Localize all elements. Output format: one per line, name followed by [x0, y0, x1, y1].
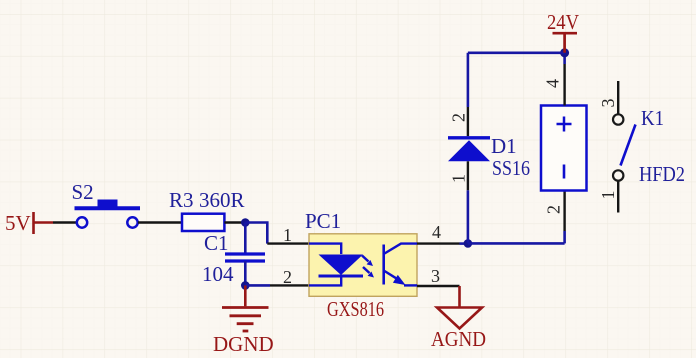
svg-text:PC1: PC1 [305, 209, 341, 233]
K1 label [641, 106, 664, 130]
junction [464, 239, 473, 248]
svg-text:AGND: AGND [431, 327, 486, 351]
wire [245, 223, 267, 244]
svg-text:1: 1 [598, 191, 618, 200]
wire (PC1 pin 1 lead) [267, 242, 309, 244]
svg-text:SS16: SS16 [492, 156, 530, 180]
PC1 pin 2 [283, 267, 292, 287]
K1 value HFD2 [639, 162, 685, 186]
power port 5V [5, 211, 53, 235]
junction [241, 218, 250, 227]
R3 value 360R [199, 188, 245, 212]
relay coil pin 4 number [543, 79, 563, 88]
svg-text:24V: 24V [547, 10, 579, 34]
relay contact K1 [613, 81, 636, 213]
svg-text:2: 2 [544, 205, 564, 214]
svg-text:GXS816: GXS816 [327, 297, 384, 321]
wire [467, 190, 470, 243]
ground AGND [431, 286, 486, 351]
svg-text:2: 2 [283, 267, 292, 287]
relay coil pin 2 number [544, 205, 564, 214]
svg-text:5V: 5V [5, 211, 31, 235]
D1 label [491, 134, 517, 158]
switch S2 [72, 180, 141, 228]
PC1 pin 3 [431, 266, 440, 286]
svg-text:360R: 360R [199, 188, 245, 212]
wire [467, 53, 470, 107]
wire [468, 51, 565, 54]
C1 value 104 [202, 262, 234, 286]
svg-text:4: 4 [543, 79, 563, 88]
relay coil K1 [541, 106, 587, 191]
wire [460, 242, 468, 245]
svg-text:1: 1 [449, 174, 469, 183]
svg-text:104: 104 [202, 262, 234, 286]
wire (D1 pin 1 lead) [467, 161, 469, 190]
wire [244, 261, 247, 285]
wire [468, 242, 565, 245]
svg-text:4: 4 [432, 222, 441, 242]
svg-text:C1: C1 [204, 231, 229, 255]
wire [245, 284, 270, 287]
wire (PC1 pin 4 lead) [417, 242, 460, 244]
wire (D1 pin 2 lead) [467, 107, 469, 136]
PC1 pin 1 [283, 225, 292, 245]
wire [244, 223, 247, 253]
D1 pin 2 number [449, 113, 469, 122]
svg-text:D1: D1 [491, 134, 517, 158]
wire [563, 231, 566, 243]
power port 24V [547, 10, 579, 53]
svg-text:1: 1 [283, 225, 292, 245]
PC1 label [305, 209, 341, 233]
svg-text:2: 2 [449, 113, 469, 122]
wire (PC1 pin 2 lead) [270, 284, 309, 286]
capacitor C1 [225, 254, 265, 261]
wire [53, 221, 77, 223]
svg-text:K1: K1 [641, 106, 664, 130]
optocoupler PC1 [309, 234, 417, 296]
svg-text:R3: R3 [169, 188, 194, 212]
PC1 pin 4 [432, 222, 441, 242]
PC1 value GXS816 [327, 297, 384, 321]
ground DGND [213, 285, 274, 356]
wire (relay coil pin 2 lead) [563, 190, 565, 231]
junction [241, 281, 250, 290]
wire [563, 53, 566, 64]
wire (relay coil pin 4 lead) [563, 64, 565, 106]
wire [224, 221, 245, 223]
wire (PC1 pin 3 lead) [417, 285, 460, 287]
D1 pin 1 number [449, 174, 469, 183]
junction [560, 48, 569, 57]
D1 value SS16 [492, 156, 530, 180]
svg-text:3: 3 [431, 266, 440, 286]
wire [138, 221, 182, 223]
svg-text:3: 3 [598, 99, 618, 108]
C1 label [204, 231, 229, 255]
K1 contact pin 3 number [598, 99, 618, 108]
diode D1 [448, 138, 490, 162]
svg-text:HFD2: HFD2 [639, 162, 685, 186]
svg-text:DGND: DGND [213, 332, 274, 356]
K1 contact pin 1 number [598, 191, 618, 200]
resistor R3 [182, 214, 224, 231]
svg-text:S2: S2 [72, 180, 94, 204]
R3 label [169, 188, 194, 212]
